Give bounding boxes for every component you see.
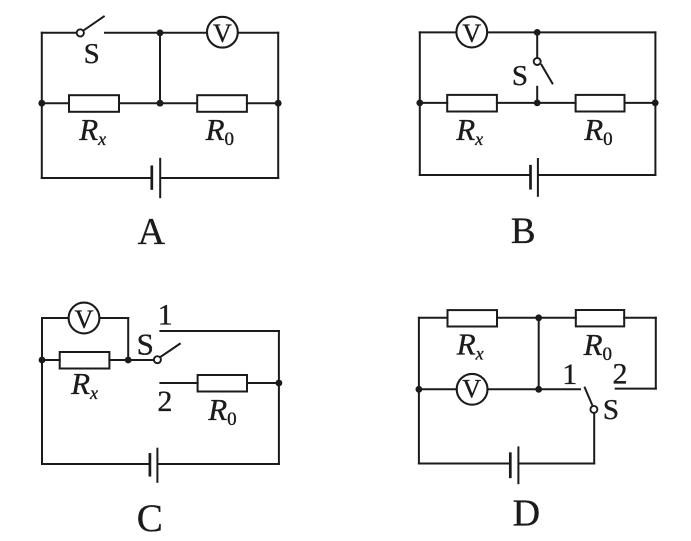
resistor Rx (circuit C) <box>60 352 110 369</box>
switch S (circuit B) <box>534 58 553 83</box>
wire B voltmeter to node and right corner <box>487 31 655 33</box>
voltmeter V (circuit C) <box>69 303 100 334</box>
node C Rx-left junction <box>39 357 46 364</box>
svg-text:S: S <box>603 394 619 426</box>
node B middle-left junction <box>416 100 423 107</box>
svg-text:V: V <box>462 375 481 404</box>
wire C right vertical <box>278 331 280 464</box>
node B middle-right junction <box>652 100 659 107</box>
wire C voltmeter loop top-left <box>42 317 69 319</box>
wire D switch to bottom <box>593 413 595 463</box>
wire C voltmeter loop top-right <box>100 317 129 319</box>
wire C voltmeter loop right vertical <box>127 318 129 360</box>
svg-text:R0: R0 <box>205 112 234 150</box>
wire D middle left segment <box>419 388 457 390</box>
resistor Rx (circuit D) <box>448 310 498 326</box>
wire C left vertical <box>41 318 43 464</box>
resistor Rx (circuit B) <box>447 95 497 112</box>
wire A top switch to node <box>105 32 207 34</box>
svg-text:C: C <box>137 497 163 540</box>
wire A middle left segment <box>42 102 69 104</box>
wire A middle Rx to node to R0 <box>119 102 197 104</box>
wire D terminal 2 <box>616 388 656 390</box>
svg-text:Rx: Rx <box>70 366 98 403</box>
wire A voltmeter to top-right corner <box>238 32 278 34</box>
wire B left vertical <box>419 32 421 175</box>
wire A right vertical <box>277 33 279 178</box>
svg-text:V: V <box>213 19 232 48</box>
wire B middle left segment <box>420 102 447 104</box>
switch S (circuit D) <box>585 388 598 413</box>
wire C Rx left stub <box>42 359 60 361</box>
voltmeter V (circuit D) <box>457 374 488 405</box>
wire C Rx to node and switch <box>109 359 153 361</box>
node D top-center junction <box>535 314 542 321</box>
wire A center vertical branch <box>159 33 161 103</box>
voltmeter V (circuit B) <box>456 17 487 48</box>
wire B switch upper stub <box>536 32 538 57</box>
svg-text:1: 1 <box>562 358 577 391</box>
wire A left vertical <box>41 33 43 178</box>
wire D voltmeter to node and terminal 1 <box>488 388 580 390</box>
battery (circuit C) <box>150 449 158 482</box>
wire D top Rx to node to R0 <box>497 317 576 319</box>
wire D bottom-right segment <box>520 463 595 465</box>
node A middle-center junction <box>157 100 164 107</box>
wire D top R0 to right corner <box>624 317 656 319</box>
battery (circuit A) <box>152 159 160 197</box>
wire B middle Rx to node to R0 <box>497 102 576 104</box>
voltmeter V (circuit A) <box>207 17 238 48</box>
wire C R0 to right vertical <box>247 382 279 384</box>
svg-text:R0: R0 <box>583 327 612 365</box>
resistor R0 (circuit B) <box>576 95 625 112</box>
battery (circuit B) <box>531 159 538 196</box>
wire C bottom-left segment <box>42 463 149 465</box>
svg-text:V: V <box>462 19 481 48</box>
node C right junction <box>276 380 283 387</box>
resistor R0 (circuit C) <box>198 375 247 392</box>
wire B top-left segment <box>420 31 456 33</box>
node B middle-center junction <box>534 100 541 107</box>
svg-text:V: V <box>75 305 94 334</box>
svg-text:S: S <box>512 60 528 92</box>
node A middle-right junction <box>275 100 282 107</box>
wire D bottom-left segment <box>419 463 509 465</box>
wire D left vertical <box>418 318 420 464</box>
svg-text:A: A <box>138 211 166 253</box>
svg-text:R0: R0 <box>207 392 236 430</box>
node A top-center junction <box>157 29 164 36</box>
wire C terminal 2 to R0 <box>160 382 197 384</box>
switch S (circuit C) <box>154 344 180 363</box>
node A middle-left junction <box>38 100 45 107</box>
wire B bottom-left segment <box>420 174 529 176</box>
wire B right vertical <box>654 32 656 175</box>
svg-text:1: 1 <box>158 299 173 332</box>
wire A top-left segment <box>42 32 77 34</box>
svg-text:2: 2 <box>613 358 628 391</box>
resistor R0 (circuit A) <box>197 95 247 112</box>
battery (circuit D) <box>510 447 518 483</box>
node D middle-left junction <box>416 386 423 393</box>
svg-text:R0: R0 <box>583 112 612 150</box>
node C Rx-right junction <box>125 357 132 364</box>
svg-text:Rx: Rx <box>456 327 484 364</box>
svg-text:Rx: Rx <box>455 112 483 149</box>
wire C terminal 1 <box>160 330 279 332</box>
node B top-center junction <box>534 29 541 36</box>
svg-text:S: S <box>137 327 154 362</box>
wire D center vertical branch <box>538 318 540 390</box>
wire B bottom-right segment <box>539 174 655 176</box>
switch S (circuit A) <box>77 17 104 37</box>
wire D top-left segment <box>419 317 448 319</box>
resistor Rx (circuit A) <box>69 95 119 112</box>
svg-text:S: S <box>84 38 100 70</box>
wire A bottom-right segment <box>162 177 279 179</box>
wire B middle right segment <box>625 102 656 104</box>
svg-text:D: D <box>513 492 540 534</box>
svg-text:2: 2 <box>157 385 172 418</box>
wire A middle right segment <box>247 102 278 104</box>
wire B switch lower stub <box>536 87 538 103</box>
svg-text:B: B <box>511 211 536 252</box>
wire A bottom-left segment <box>42 177 151 179</box>
resistor R0 (circuit D) <box>576 310 624 326</box>
wire D right vertical <box>655 318 657 389</box>
wire C bottom-right segment <box>159 463 279 465</box>
node D middle-center junction <box>535 386 542 393</box>
svg-text:Rx: Rx <box>78 112 106 149</box>
